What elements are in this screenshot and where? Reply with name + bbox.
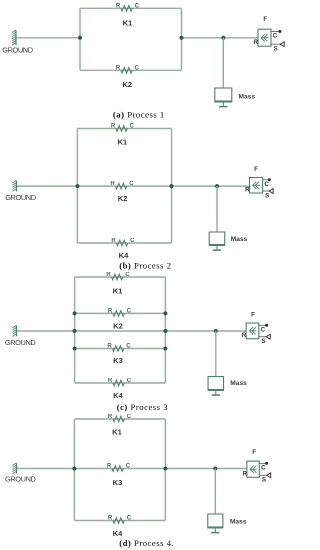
svg-text:GROUND: GROUND xyxy=(5,193,36,202)
svg-text:R: R xyxy=(108,308,113,314)
svg-text:S: S xyxy=(261,338,265,345)
svg-text:K1: K1 xyxy=(112,428,122,437)
svg-text:S: S xyxy=(265,192,269,199)
svg-text:F: F xyxy=(263,16,267,23)
svg-text:R: R xyxy=(116,3,121,9)
svg-text:R: R xyxy=(111,238,116,244)
svg-text:GROUND: GROUND xyxy=(2,45,33,54)
svg-text:K2: K2 xyxy=(113,322,123,331)
svg-text:K4: K4 xyxy=(113,391,123,400)
svg-text:C: C xyxy=(127,308,132,314)
svg-text:GROUND: GROUND xyxy=(5,338,36,347)
svg-text:C: C xyxy=(130,124,135,130)
svg-text:C: C xyxy=(261,465,266,472)
svg-text:S: S xyxy=(274,46,278,53)
svg-text:Mass: Mass xyxy=(230,380,247,387)
svg-text:S: S xyxy=(262,477,266,484)
svg-text:R: R xyxy=(106,272,111,278)
svg-text:C: C xyxy=(125,272,130,278)
svg-text:K2: K2 xyxy=(122,80,132,89)
svg-text:C: C xyxy=(130,238,135,244)
svg-text:C: C xyxy=(261,327,266,334)
svg-text:C: C xyxy=(129,181,134,187)
svg-text:R: R xyxy=(242,332,247,339)
svg-text:R: R xyxy=(242,471,247,478)
svg-text:K3: K3 xyxy=(113,356,123,365)
svg-text:R: R xyxy=(108,516,113,522)
svg-text:R: R xyxy=(107,464,112,470)
svg-text:(d) Process 4.: (d) Process 4. xyxy=(119,538,174,548)
svg-text:C: C xyxy=(127,516,132,522)
svg-text:C: C xyxy=(127,378,132,384)
svg-text:Mass: Mass xyxy=(239,94,256,101)
svg-text:K1: K1 xyxy=(113,287,123,296)
svg-text:C: C xyxy=(264,181,269,188)
svg-text:C: C xyxy=(135,3,140,9)
svg-text:F: F xyxy=(252,449,256,456)
svg-text:(a) Process 1: (a) Process 1 xyxy=(113,109,165,119)
svg-text:K2: K2 xyxy=(118,194,128,203)
svg-text:K4: K4 xyxy=(119,251,129,260)
svg-text:C: C xyxy=(127,414,132,420)
svg-text:K4: K4 xyxy=(113,529,123,538)
svg-text:R: R xyxy=(108,378,113,384)
svg-text:R: R xyxy=(110,181,115,187)
svg-text:C: C xyxy=(273,33,278,40)
svg-text:K1: K1 xyxy=(117,137,127,146)
svg-text:C: C xyxy=(126,344,131,350)
svg-text:R: R xyxy=(108,414,113,420)
svg-text:R: R xyxy=(245,187,250,194)
svg-text:C: C xyxy=(135,65,140,71)
svg-text:Mass: Mass xyxy=(230,519,247,526)
svg-text:GROUND: GROUND xyxy=(5,475,36,484)
svg-text:K1: K1 xyxy=(123,18,133,27)
svg-text:R: R xyxy=(111,124,116,130)
svg-text:Mass: Mass xyxy=(231,236,248,243)
svg-text:K3: K3 xyxy=(113,478,123,487)
svg-text:R: R xyxy=(116,65,121,71)
svg-text:(c) Process 3: (c) Process 3 xyxy=(117,402,168,412)
svg-text:(b) Process 2: (b) Process 2 xyxy=(119,261,171,271)
svg-text:F: F xyxy=(251,311,255,318)
svg-text:R: R xyxy=(107,344,112,350)
svg-text:C: C xyxy=(126,464,131,470)
svg-text:F: F xyxy=(254,166,258,173)
svg-text:R: R xyxy=(254,39,259,46)
